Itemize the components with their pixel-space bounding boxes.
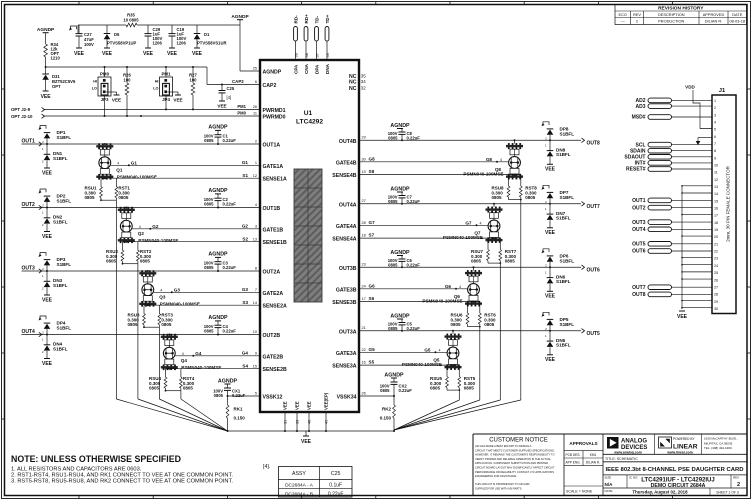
svg-text:S1BFL: S1BFL: [57, 135, 72, 140]
svg-text:35: 35: [361, 73, 366, 78]
svg-text:VEE: VEE: [545, 167, 556, 173]
svg-text:PRODUCTION: PRODUCTION: [658, 19, 684, 24]
svg-text:4: 4: [117, 161, 119, 165]
svg-text:8: 8: [714, 149, 716, 153]
svg-text:DNA: DNA: [325, 63, 330, 74]
svg-text:31: 31: [284, 420, 288, 424]
svg-text:19: 19: [714, 228, 718, 232]
svg-text:AGNDP: AGNDP: [390, 313, 410, 319]
svg-text:G7: G7: [465, 221, 472, 226]
svg-text:CIRCUIT THAT MEETS CUSTOMER-SU: CIRCUIT THAT MEETS CUSTOMER-SUPPLIED SPE…: [475, 448, 555, 452]
svg-text:0805: 0805: [118, 195, 129, 200]
svg-text:AGNDP: AGNDP: [231, 14, 249, 20]
svg-text:S1BFL: S1BFL: [53, 219, 68, 224]
svg-text:0805: 0805: [214, 393, 224, 398]
svg-text:AGNDP: AGNDP: [208, 125, 228, 131]
svg-text:SENSE3B: SENSE3B: [332, 300, 356, 306]
svg-text:GATE3B: GATE3B: [336, 287, 357, 293]
svg-text:IC NO.: IC NO.: [629, 476, 638, 480]
svg-text:1630 McCARTHY BLVD.,: 1630 McCARTHY BLVD.,: [704, 437, 738, 441]
svg-text:26: 26: [362, 392, 366, 396]
svg-text:SENSE2A: SENSE2A: [263, 304, 287, 310]
svg-text:GATE2B: GATE2B: [263, 354, 284, 360]
svg-text:HOWEVER, IT REMAINS THE CUSTOM: HOWEVER, IT REMAINS THE CUSTOMER'S RESPO…: [475, 453, 554, 457]
svg-text:OUT4B: OUT4B: [339, 139, 357, 145]
svg-text:SENSE1B: SENSE1B: [263, 240, 287, 246]
svg-text:APP ENG.: APP ENG.: [566, 460, 581, 464]
svg-text:SDAIN: SDAIN: [630, 148, 646, 154]
svg-text:19: 19: [362, 170, 366, 174]
svg-text:C25: C25: [331, 471, 341, 477]
svg-text:SUPPLIED FOR USE WITH ADI PART: SUPPLIED FOR USE WITH ADI PARTS.: [475, 486, 522, 490]
svg-text:S1BFL: S1BFL: [57, 199, 72, 204]
svg-text:11: 11: [714, 171, 718, 175]
svg-text:DATE: DATE: [732, 12, 742, 17]
svg-text:0805: 0805: [204, 265, 214, 270]
svg-text:—: —: [621, 19, 625, 24]
svg-text:AGNDP: AGNDP: [208, 252, 228, 258]
svg-text:14: 14: [714, 192, 718, 196]
svg-text:0.22uF: 0.22uF: [407, 326, 421, 331]
svg-text:OUT2B: OUT2B: [263, 333, 281, 339]
svg-text:SIZE: SIZE: [605, 476, 612, 480]
svg-text:GATE2A: GATE2A: [263, 291, 284, 297]
svg-text:AGNDP: AGNDP: [390, 123, 410, 129]
svg-text:J1: J1: [719, 88, 726, 94]
svg-text:SDAOUT: SDAOUT: [624, 155, 645, 161]
svg-text:AGNDP: AGNDP: [263, 70, 282, 76]
svg-text:VEE: VEE: [301, 439, 312, 445]
svg-text:16: 16: [362, 361, 366, 365]
svg-text:0805: 0805: [149, 386, 160, 391]
svg-text:RK2: RK2: [382, 407, 391, 412]
svg-text:D5: D5: [114, 32, 120, 37]
svg-text:CAP2: CAP2: [263, 83, 277, 89]
svg-text:S1BFL: S1BFL: [560, 259, 575, 264]
svg-text:RK1: RK1: [234, 407, 243, 412]
svg-text:0805: 0805: [388, 262, 398, 267]
svg-text:25: 25: [714, 271, 718, 275]
svg-text:PCB DES.: PCB DES.: [566, 453, 581, 457]
svg-text:DATE:: DATE:: [605, 489, 614, 493]
svg-text:17: 17: [362, 297, 366, 301]
svg-text:VEE: VEE: [167, 51, 178, 57]
svg-text:OPT J2-9: OPT J2-9: [11, 107, 31, 112]
svg-text:Q4: Q4: [181, 358, 188, 363]
svg-text:23: 23: [714, 257, 718, 261]
svg-text:25: 25: [253, 67, 257, 71]
svg-text:NOTE: UNLESS OTHERWISE SPECIFI: NOTE: UNLESS OTHERWISE SPECIFIED: [11, 454, 181, 464]
svg-text:PSMN040-100MSE: PSMN040-100MSE: [181, 365, 221, 370]
svg-text:4: 4: [182, 352, 184, 356]
svg-text:4: 4: [160, 288, 162, 292]
svg-text:SENSE1A: SENSE1A: [263, 177, 287, 183]
svg-text:29: 29: [714, 300, 718, 304]
svg-text:33: 33: [296, 420, 300, 424]
svg-text:REV: REV: [633, 12, 641, 17]
svg-text:G4: G4: [195, 351, 202, 356]
svg-text:VEE: VEE: [283, 401, 288, 410]
svg-text:0805: 0805: [388, 135, 398, 140]
svg-text:0805: 0805: [106, 259, 117, 264]
svg-text:0805: 0805: [204, 138, 214, 143]
svg-text:DILIAN R.: DILIAN R.: [586, 460, 600, 464]
svg-text:0805: 0805: [492, 195, 503, 200]
svg-text:3: 3: [255, 224, 257, 228]
svg-text:AGNDP: AGNDP: [384, 372, 404, 378]
svg-text:20: 20: [714, 235, 718, 239]
svg-text:5: 5: [714, 128, 716, 132]
svg-text:OUT4: OUT4: [632, 227, 646, 233]
svg-text:3. RST5-RST8, RSU5-RSU8, AND: 3. RST5-RST8, RSU5-RSU8, AND RK2 CONNECT…: [11, 479, 233, 485]
svg-text:0.22uF: 0.22uF: [223, 265, 237, 270]
svg-text:PERFORMANCE OR RELIABILITY. C: PERFORMANCE OR RELIABILITY. CONTACT LTC …: [475, 470, 554, 474]
svg-text:18: 18: [714, 221, 718, 225]
svg-text:2mm, 30 PIN FEMALE CONNECTOR: 2mm, 30 PIN FEMALE CONNECTOR: [726, 165, 731, 241]
svg-text:VEE: VEE: [545, 357, 556, 363]
svg-text:www.linear.com: www.linear.com: [666, 450, 693, 454]
svg-text:SENSE4A: SENSE4A: [332, 237, 356, 243]
svg-text:13: 13: [253, 237, 257, 241]
svg-text:16: 16: [714, 207, 718, 211]
svg-text:G4: G4: [242, 350, 249, 355]
svg-text:2: 2: [737, 482, 740, 488]
svg-text:0805: 0805: [484, 322, 495, 327]
svg-text:27: 27: [714, 285, 718, 289]
svg-text:AD3: AD3: [635, 104, 645, 110]
svg-text:12: 12: [253, 174, 257, 178]
svg-text:PSMN040-100MSE: PSMN040-100MSE: [443, 235, 483, 240]
svg-text:S5: S5: [369, 360, 375, 365]
svg-text:VSSK34: VSSK34: [337, 395, 357, 401]
svg-text:TEL: (408) 432-1900: TEL: (408) 432-1900: [704, 446, 732, 450]
svg-text:S1BFL: S1BFL: [556, 216, 571, 221]
svg-text:OUT7: OUT7: [587, 204, 601, 210]
svg-text:9: 9: [255, 351, 257, 355]
svg-text:RESET#: RESET#: [626, 167, 646, 173]
svg-text:NC: NC: [349, 86, 357, 92]
svg-text:HI: HI: [93, 80, 97, 84]
svg-text:0.22uF: 0.22uF: [223, 329, 237, 334]
svg-text:12: 12: [714, 178, 718, 182]
svg-text:OUT5: OUT5: [587, 331, 601, 337]
svg-text:AGNDP: AGNDP: [390, 186, 410, 192]
svg-text:REV: REV: [733, 476, 739, 480]
svg-text:0.22uF: 0.22uF: [407, 135, 421, 140]
svg-text:S1BFL: S1BFL: [560, 322, 575, 327]
svg-text:41: 41: [325, 420, 329, 424]
svg-text:0.150: 0.150: [380, 416, 392, 421]
svg-text:HI: HI: [155, 80, 159, 84]
svg-text:2: 2: [714, 106, 716, 110]
svg-text:21: 21: [714, 242, 718, 246]
svg-text:0805: 0805: [85, 195, 96, 200]
svg-text:0.22uF: 0.22uF: [328, 491, 344, 497]
svg-text:S1BFL: S1BFL: [53, 283, 68, 288]
svg-text:DILIAN R.: DILIAN R.: [705, 19, 723, 24]
svg-text:VEE: VEE: [307, 401, 312, 410]
svg-text:17: 17: [714, 214, 718, 218]
svg-text:0805: 0805: [471, 259, 482, 264]
svg-text:KM1: KM1: [590, 453, 597, 457]
svg-text:S1BFL: S1BFL: [556, 343, 571, 348]
svg-text:Thursday, August 02, 2018: Thursday, August 02, 2018: [632, 490, 688, 495]
svg-text:VEE: VEE: [677, 314, 688, 320]
svg-text:GATE3A: GATE3A: [336, 351, 357, 357]
svg-text:PM0: PM0: [237, 110, 246, 115]
svg-text:28: 28: [362, 221, 366, 225]
svg-text:PSMN040-100MSE: PSMN040-100MSE: [402, 362, 442, 367]
svg-text:S1BFL: S1BFL: [53, 156, 68, 161]
svg-text:22: 22: [714, 250, 718, 254]
svg-text:0.22uF: 0.22uF: [232, 393, 246, 398]
svg-text:RD-: RD-: [293, 15, 298, 24]
svg-text:10: 10: [714, 164, 718, 168]
svg-text:S1BFL: S1BFL: [556, 279, 571, 284]
svg-text:www.analog.com: www.analog.com: [613, 450, 642, 454]
svg-text:OUT2: OUT2: [632, 205, 646, 211]
svg-text:24: 24: [714, 264, 718, 268]
svg-text:13: 13: [714, 185, 718, 189]
svg-text:OPT J2-10: OPT J2-10: [11, 114, 33, 119]
svg-text:OUT2A: OUT2A: [263, 270, 281, 276]
svg-text:VEE: VEE: [295, 401, 300, 410]
svg-text:SENSE3A: SENSE3A: [332, 364, 356, 370]
svg-text:VEE: VEE: [217, 104, 226, 109]
svg-text:0805: 0805: [451, 322, 462, 327]
svg-text:REVISION HISTORY: REVISION HISTORY: [658, 6, 704, 12]
svg-text:VDD: VDD: [685, 85, 695, 90]
svg-text:G6: G6: [445, 284, 452, 289]
svg-text:OUT3: OUT3: [632, 220, 646, 226]
svg-text:27: 27: [362, 199, 366, 203]
svg-text:G2: G2: [242, 223, 249, 228]
svg-text:4: 4: [500, 158, 502, 162]
svg-text:8: 8: [255, 266, 257, 270]
svg-text:MSD#: MSD#: [632, 115, 646, 121]
svg-text:THIS CIRCUIT IS PROPRIETARY TO: THIS CIRCUIT IS PROPRIETARY TO ADI AND: [475, 482, 530, 486]
svg-text:S6: S6: [369, 296, 375, 301]
svg-text:C25: C25: [227, 86, 235, 91]
svg-text:CAP2: CAP2: [232, 79, 244, 84]
svg-text:0805: 0805: [525, 195, 536, 200]
svg-text:OUT1A: OUT1A: [263, 143, 281, 149]
svg-text:0805: 0805: [161, 322, 172, 327]
svg-text:S1BFL: S1BFL: [53, 346, 68, 351]
svg-text:0805: 0805: [430, 386, 441, 391]
svg-text:6: 6: [255, 80, 257, 84]
svg-text:PSMN040-100MSE: PSMN040-100MSE: [422, 299, 462, 304]
svg-text:40: 40: [308, 420, 312, 424]
svg-text:PSMN040-100MSE: PSMN040-100MSE: [117, 175, 157, 180]
svg-text:ADI HAS MADE A BEST EFFORT TO: ADI HAS MADE A BEST EFFORT TO DESIGN A: [475, 444, 532, 448]
svg-text:RD+: RD+: [304, 14, 309, 24]
svg-text:0.22uF: 0.22uF: [223, 202, 237, 207]
svg-text:6: 6: [714, 135, 716, 139]
svg-text:30: 30: [362, 157, 366, 161]
svg-text:GATE4A: GATE4A: [336, 224, 357, 230]
svg-text:30: 30: [714, 307, 718, 311]
svg-text:S4: S4: [242, 363, 248, 368]
svg-text:G2: G2: [152, 224, 159, 229]
svg-text:Q1: Q1: [116, 168, 123, 173]
svg-text:S1BFL: S1BFL: [57, 262, 72, 267]
svg-text:0.150: 0.150: [234, 416, 246, 421]
svg-text:PSMN040-100MSE: PSMN040-100MSE: [138, 238, 178, 243]
svg-text:DC2684A - B: DC2684A - B: [285, 491, 313, 497]
svg-text:G3: G3: [174, 288, 181, 293]
svg-text:2: 2: [255, 139, 257, 143]
svg-text:OUT3A: OUT3A: [339, 329, 357, 335]
svg-text:OUT7: OUT7: [632, 285, 646, 291]
svg-text:VEE: VEE: [545, 294, 556, 300]
svg-text:0805: 0805: [204, 329, 214, 334]
svg-text:AGNDP: AGNDP: [208, 188, 228, 194]
svg-text:APPROVALS: APPROVALS: [569, 441, 597, 446]
svg-text:G1: G1: [131, 161, 138, 166]
svg-text:0805: 0805: [380, 388, 390, 393]
svg-text:[4].: [4].: [263, 464, 270, 470]
svg-text:14: 14: [253, 301, 257, 305]
svg-text:26: 26: [253, 105, 257, 109]
svg-text:AGNDP: AGNDP: [390, 250, 410, 256]
svg-text:0805: 0805: [505, 259, 516, 264]
svg-text:S1BFL: S1BFL: [556, 152, 571, 157]
svg-text:ECO: ECO: [619, 12, 627, 17]
svg-text:0.22uF: 0.22uF: [399, 388, 413, 393]
svg-text:LTC4292: LTC4292: [296, 119, 323, 126]
svg-text:0805: 0805: [140, 259, 151, 264]
svg-text:SCL: SCL: [636, 142, 646, 148]
svg-text:Q2: Q2: [138, 231, 145, 236]
svg-text:4: 4: [255, 203, 257, 207]
svg-text:G3: G3: [242, 287, 249, 292]
svg-text:VEE: VEE: [42, 234, 53, 240]
svg-text:1206: 1206: [153, 41, 163, 46]
svg-text:CIRCUIT BOARD LAYOUT MAY DIGNI: CIRCUIT BOARD LAYOUT MAY DIGNIFICANTLY A…: [475, 466, 555, 470]
svg-text:G8: G8: [486, 157, 493, 162]
svg-text:10 0805: 10 0805: [123, 18, 139, 23]
svg-text:G5: G5: [424, 348, 431, 353]
svg-text:29: 29: [362, 136, 366, 140]
svg-text:DESCRIPTION: DESCRIPTION: [658, 12, 685, 17]
svg-text:26: 26: [714, 278, 718, 282]
svg-text:GATE1B: GATE1B: [263, 227, 284, 233]
svg-text:0805: 0805: [388, 199, 398, 204]
svg-text:4: 4: [439, 348, 441, 352]
svg-text:32: 32: [361, 85, 366, 90]
svg-text:NC: NC: [349, 80, 357, 86]
svg-text:OUT5: OUT5: [632, 242, 646, 248]
svg-text:11: 11: [253, 111, 257, 115]
svg-text:GATE1A: GATE1A: [263, 164, 284, 170]
svg-text:0.22uF: 0.22uF: [407, 199, 421, 204]
svg-text:VEE: VEE: [173, 98, 182, 103]
svg-text:18: 18: [362, 234, 366, 238]
svg-text:SCALE = NONE: SCALE = NONE: [566, 490, 593, 494]
svg-text:2: 2: [636, 19, 638, 24]
svg-text:SHEET 1 OF 3: SHEET 1 OF 3: [716, 491, 739, 495]
svg-text:MILPITAS, CA 95035: MILPITAS, CA 95035: [704, 441, 733, 445]
svg-text:CNA: CNA: [304, 63, 309, 74]
svg-text:ASSY: ASSY: [292, 471, 306, 477]
svg-text:9: 9: [714, 156, 716, 160]
svg-text:DPA: DPA: [314, 64, 319, 74]
svg-text:TD+: TD+: [325, 14, 330, 23]
svg-text:S3: S3: [242, 300, 248, 305]
svg-text:OUT8: OUT8: [632, 292, 646, 298]
svg-text:OPT: OPT: [52, 84, 61, 89]
svg-text:15: 15: [714, 199, 718, 203]
svg-text:7: 7: [255, 288, 257, 292]
svg-text:CUSTOMER NOTICE: CUSTOMER NOTICE: [489, 438, 548, 444]
svg-text:VEE: VEE: [42, 297, 53, 303]
svg-text:OUT4A: OUT4A: [339, 202, 357, 208]
svg-text:S7: S7: [369, 233, 375, 238]
svg-text:LO: LO: [153, 87, 158, 91]
svg-text:G8: G8: [369, 156, 376, 161]
svg-text:PTVS58VS1UR: PTVS58VS1UR: [197, 41, 227, 46]
svg-text:3: 3: [714, 113, 716, 117]
svg-text:VEE(EP): VEE(EP): [324, 392, 329, 410]
svg-text:VEE: VEE: [102, 51, 113, 57]
svg-text:100V: 100V: [84, 42, 94, 47]
svg-text:S2: S2: [242, 236, 248, 241]
svg-text:23: 23: [362, 263, 366, 267]
svg-text:OUT8: OUT8: [587, 140, 601, 146]
svg-text:ANALOG: ANALOG: [621, 439, 647, 445]
svg-text:21: 21: [362, 326, 366, 330]
svg-text:4: 4: [139, 225, 141, 229]
svg-text:0.22uF: 0.22uF: [223, 138, 237, 143]
svg-text:0805: 0805: [183, 386, 194, 391]
svg-text:4: 4: [459, 285, 461, 289]
svg-text:AGNDP: AGNDP: [37, 27, 55, 33]
svg-text:VEE: VEE: [74, 51, 85, 57]
svg-text:TD-: TD-: [314, 15, 319, 23]
svg-text:D1: D1: [204, 32, 210, 37]
svg-text:22: 22: [362, 348, 366, 352]
svg-text:PM1: PM1: [237, 104, 246, 109]
svg-text:1: 1: [255, 161, 257, 165]
svg-text:1: 1: [714, 99, 716, 103]
svg-text:AGNDP: AGNDP: [208, 315, 228, 321]
svg-text:ENGINEERING FOR ASSISTANCE.: ENGINEERING FOR ASSISTANCE.: [475, 474, 517, 478]
svg-text:4: 4: [714, 121, 716, 125]
svg-text:VEE: VEE: [192, 51, 203, 57]
svg-text:OUT6: OUT6: [632, 249, 646, 255]
svg-text:08-03-18: 08-03-18: [729, 19, 745, 24]
svg-text:LO: LO: [92, 87, 97, 91]
svg-text:PSMN040-100MSE: PSMN040-100MSE: [463, 172, 503, 177]
svg-text:S8: S8: [369, 169, 375, 174]
svg-text:VSSK12: VSSK12: [263, 395, 283, 401]
svg-text:S1BFL: S1BFL: [560, 132, 575, 137]
svg-text:34: 34: [361, 79, 366, 84]
svg-text:VEE: VEE: [42, 361, 53, 367]
svg-text:SENSE4B: SENSE4B: [332, 173, 356, 179]
svg-text:7: 7: [714, 142, 716, 146]
svg-text:0.1uF: 0.1uF: [329, 483, 342, 489]
svg-text:APPLICATION. COMPONENT SUBSTIT: APPLICATION. COMPONENT SUBSTITUTION AND …: [475, 461, 548, 465]
svg-text:PTVS58VP1UP: PTVS58VP1UP: [107, 41, 137, 46]
svg-text:DC2684A - A: DC2684A - A: [285, 483, 314, 489]
svg-text:OUT6: OUT6: [587, 267, 601, 273]
svg-text:SENSE2B: SENSE2B: [263, 367, 287, 373]
svg-text:N/A: N/A: [605, 482, 614, 487]
svg-text:VEE: VEE: [112, 98, 121, 103]
svg-text:Q3: Q3: [159, 295, 166, 300]
